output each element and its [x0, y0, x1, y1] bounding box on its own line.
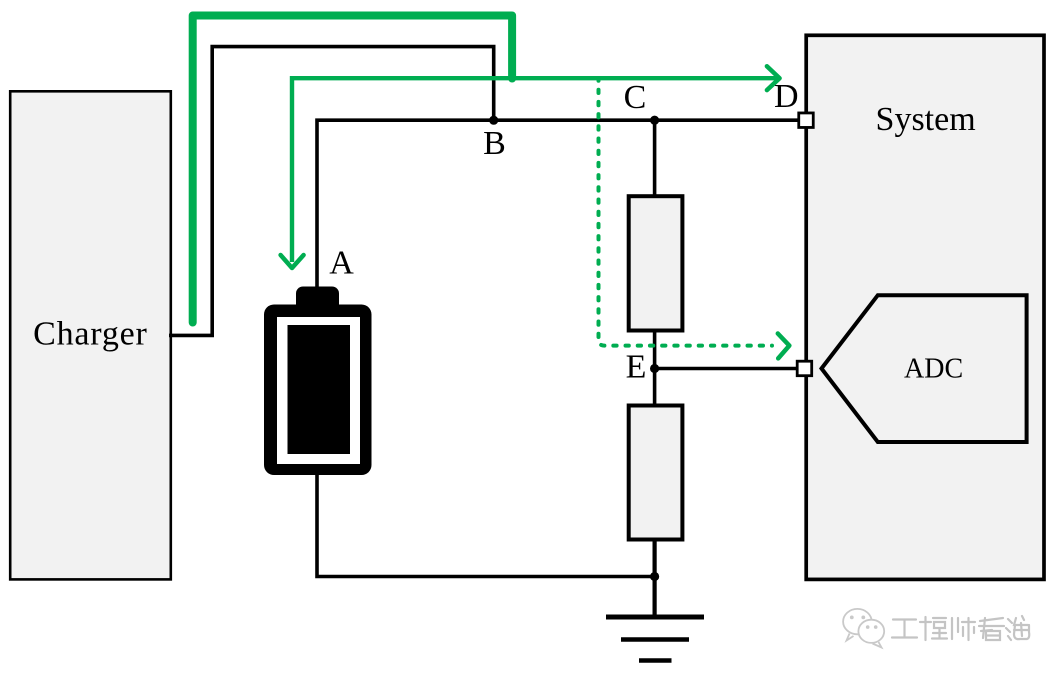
svg-text:E: E: [626, 349, 647, 386]
svg-text:ADC: ADC: [904, 353, 963, 384]
svg-text:D: D: [774, 78, 799, 115]
svg-text:B: B: [483, 125, 506, 162]
svg-text:System: System: [876, 101, 976, 138]
svg-text:Charger: Charger: [33, 316, 148, 353]
svg-text:C: C: [624, 79, 647, 116]
svg-text:A: A: [329, 245, 354, 282]
